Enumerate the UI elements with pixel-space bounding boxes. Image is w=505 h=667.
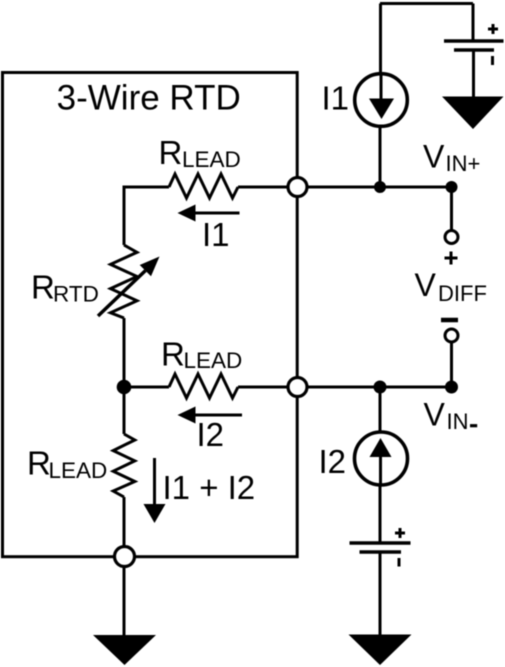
svg-text:I1: I1 [322,80,350,117]
svg-text:LEAD: LEAD [184,348,243,373]
svg-text:R: R [159,134,183,171]
svg-text:V: V [424,397,446,433]
svg-text:LEAD: LEAD [49,458,108,483]
svg-text:RTD: RTD [53,282,99,307]
svg-text:DIFF: DIFF [438,281,487,306]
svg-text:I2: I2 [197,416,225,453]
svg-text:V: V [423,139,445,175]
svg-text:R: R [31,269,55,306]
svg-text:3-Wire RTD: 3-Wire RTD [57,79,241,118]
svg-text:I1 + I2: I1 + I2 [163,469,256,506]
svg-text:LEAD: LEAD [182,147,241,172]
svg-text:R: R [27,445,51,482]
svg-text:V: V [415,267,437,303]
svg-text:I2: I2 [319,443,347,480]
svg-text:R: R [161,336,185,373]
svg-text:I1: I1 [202,216,230,253]
svg-text:IN+: IN+ [446,151,481,176]
svg-text:IN: IN [447,409,469,434]
